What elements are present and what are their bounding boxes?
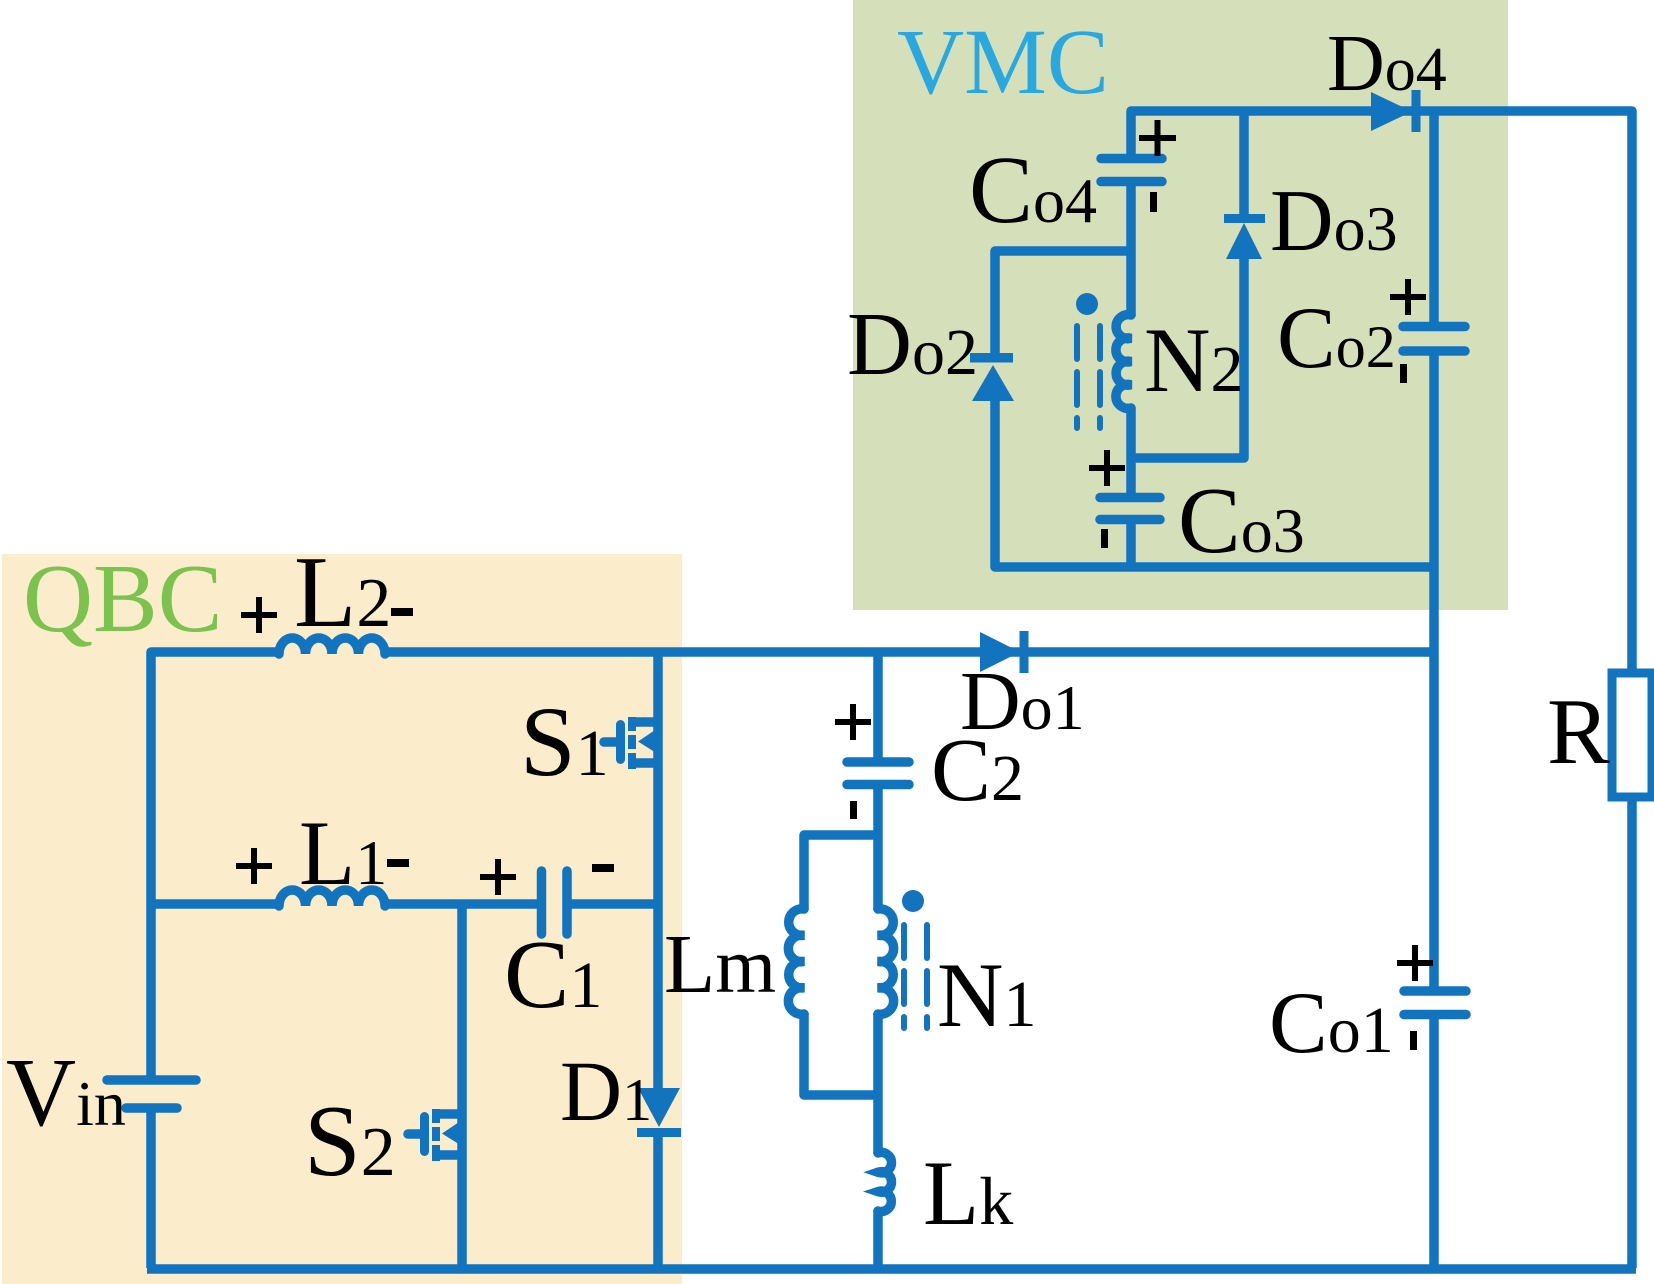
transistor S1 drain stub — [632, 717, 658, 727]
minus sign L2 — [391, 608, 413, 616]
battery Vin plate short — [126, 1103, 177, 1113]
wire: left rail lower — [146, 1110, 156, 1268]
inductor L2 — [279, 638, 385, 654]
wire: N2 bottom to Co3 — [1126, 408, 1136, 495]
transistor S2 body arrow — [442, 1118, 465, 1148]
diode Do4 bar — [1412, 90, 1421, 132]
wire: rail below D1 — [653, 1136, 663, 1268]
transistor S1 source stub — [632, 758, 658, 768]
minus sign L1 — [387, 859, 409, 867]
transistor S2 gate lead — [408, 1129, 420, 1139]
minus tick Co3 — [1101, 529, 1108, 548]
plus sign L2 — [241, 597, 277, 633]
wire: C2 bottom to N1 coil — [873, 789, 883, 910]
capacitor C1 plates — [542, 871, 568, 934]
transistor S2 drain stub — [436, 1109, 462, 1119]
svg-text:N1: N1 — [937, 944, 1036, 1046]
wire: rail Co2 to Co1 — [1429, 355, 1439, 988]
transistor S2 gate bar — [420, 1112, 429, 1156]
wire: bottom horizontal — [147, 1264, 1636, 1274]
minus sign C1 — [592, 864, 614, 872]
wire: Co4 to N2 — [1126, 186, 1136, 316]
transistor S1 channel segments — [628, 717, 636, 769]
diode Do2 triangle — [972, 365, 1014, 401]
QBC region background — [2, 554, 682, 1284]
capacitor Co3 plates — [1100, 498, 1160, 520]
wire: Lm bottom jog — [804, 1013, 878, 1095]
transistor S2 channel segments — [432, 1109, 440, 1161]
wire: Co2/Co1 rail — [1429, 111, 1439, 323]
transistor S1 gate bar — [616, 720, 625, 764]
inductor Lk — [878, 1152, 892, 1211]
wire: Lk to bottom — [873, 1211, 883, 1268]
svg-text:L2: L2 — [294, 536, 391, 649]
wire: Do2 to VMC bottom — [995, 400, 1434, 567]
diode Do1 bar — [1020, 631, 1029, 673]
capacitor Co4 plates — [1101, 159, 1162, 182]
diode Do1 triangle — [980, 632, 1020, 672]
wire: left rail and QBC top horizontal to L2 — [151, 652, 280, 1078]
plus sign Co4 — [1139, 120, 1176, 156]
capacitor C2 plates — [847, 762, 909, 785]
capacitor Co1 plates — [1404, 991, 1466, 1015]
wire: C1 to S1 rail — [570, 899, 658, 909]
minus tick Co2 — [1400, 364, 1407, 383]
minus tick C2 — [850, 801, 857, 819]
winding N2 dot — [1076, 293, 1098, 315]
wire: VMC top horizontal and right rail upper — [1131, 111, 1632, 674]
inductor L1 — [279, 890, 385, 906]
wire: N2/Do3 bottom jog — [1131, 256, 1244, 458]
plus sign Co2 — [1390, 279, 1426, 315]
transistor S1 gate lead — [604, 737, 616, 747]
winding N1 core dashed lines — [904, 925, 927, 1028]
winding N2 core dashed lines — [1077, 326, 1100, 428]
svg-text:QBC: QBC — [23, 545, 222, 652]
wire: Do3 branch from top — [1239, 111, 1249, 215]
diode Do3 triangle — [1226, 223, 1262, 259]
wire: Do2 top jog — [995, 251, 1131, 354]
diode Do4 triangle — [1371, 92, 1412, 131]
diode D1 bar — [637, 1128, 681, 1137]
transistor S2 source stub — [436, 1150, 462, 1160]
minus tick Co4 — [1150, 192, 1157, 212]
diode Do2 bar — [970, 353, 1013, 363]
svg-text:Lm: Lm — [664, 918, 776, 1011]
diode D1 triangle — [638, 1088, 680, 1127]
svg-text:Co1: Co1 — [1269, 975, 1394, 1072]
plus sign L1 — [236, 848, 272, 884]
wire: S1/D1 vertical rail — [653, 652, 663, 1090]
wire: rail below Co1 — [1429, 1018, 1439, 1268]
plus sign Co1 — [1397, 945, 1433, 981]
svg-text:R: R — [1547, 680, 1610, 784]
svg-text:Lk: Lk — [923, 1142, 1013, 1244]
winding N1 — [878, 909, 894, 1014]
transistor S1 body arrow — [638, 726, 661, 756]
resistor R body — [1612, 673, 1652, 797]
plus sign Co3 — [1089, 450, 1125, 486]
winding N2 — [1116, 315, 1131, 409]
wire: C2 branch from top wire — [873, 652, 883, 758]
wire: Lm top jog — [804, 835, 878, 910]
plus sign C1 — [480, 859, 516, 895]
diode Do3 bar — [1224, 214, 1265, 223]
wire: N1 to Lk — [873, 1013, 883, 1154]
wire: top horizontal from L2 to Co rail — [384, 647, 1434, 657]
plus sign C2 — [835, 704, 871, 740]
inductor Lm — [788, 909, 804, 1014]
VMC region background — [853, 0, 1508, 610]
winding N1 dot — [902, 890, 924, 912]
minus tick Co1 — [1410, 1031, 1417, 1050]
wire: L1 horizontal to C1 — [384, 899, 537, 909]
wire: S2 branch vertical — [457, 900, 467, 1268]
wire: L1 horizontal left — [151, 899, 280, 909]
wire: Co3 to VMC bottom — [1126, 524, 1136, 567]
battery Vin plate long — [107, 1075, 196, 1085]
capacitor Co2 plates — [1403, 327, 1465, 352]
svg-text:VMC: VMC — [897, 11, 1109, 114]
wire: right rail lower — [1627, 797, 1637, 1268]
